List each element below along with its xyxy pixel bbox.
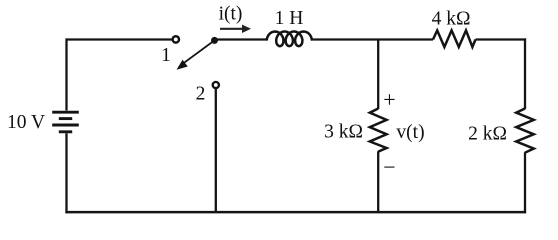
switch blade SW1 [178, 40, 215, 69]
svg-text:4 kΩ: 4 kΩ [432, 9, 471, 30]
switch terminal 1 [173, 36, 179, 42]
svg-text:2: 2 [196, 84, 206, 105]
inductor L1 coil [267, 32, 312, 47]
svg-text:2 kΩ: 2 kΩ [468, 124, 507, 145]
svg-text:10 V: 10 V [7, 112, 45, 133]
current arrow i(t) [220, 25, 251, 33]
battery V1 plate short [59, 117, 72, 120]
svg-text:+: + [383, 87, 395, 112]
battery V1 plate long bottom [52, 124, 79, 127]
resistor R3 2k zigzag [516, 109, 534, 153]
node junction at 3k branch [377, 40, 379, 110]
wire left vertical lower [65, 133, 67, 213]
svg-text:3 kΩ: 3 kΩ [324, 122, 363, 143]
svg-text:1: 1 [161, 45, 171, 66]
switch terminal 2 [213, 82, 219, 88]
wire 4k to top-right corner [476, 38, 527, 40]
switch pivot dot [211, 37, 218, 44]
svg-text:−: − [383, 155, 395, 180]
wire dot to inductor [215, 38, 268, 40]
resistor R1 4k zigzag [433, 30, 476, 47]
battery V1 plate short bottom [59, 130, 72, 133]
wire 2k resistor to bottom-right corner [524, 152, 526, 213]
resistor R2 3k zigzag [370, 109, 387, 152]
wire left vertical upper [65, 38, 67, 110]
wire bottom rail [65, 211, 526, 214]
wire inductor to 4k resistor [311, 38, 433, 40]
svg-text:1 H: 1 H [275, 8, 304, 29]
wire top-left horizontal [67, 38, 173, 40]
battery V1 plate long top [52, 111, 79, 114]
wire 3k resistor to bottom [377, 151, 379, 213]
svg-text:v(t): v(t) [396, 122, 424, 143]
svg-text:i(t): i(t) [219, 4, 243, 25]
wire from terminal 2 down [215, 88, 217, 213]
wire right vertical upper [524, 38, 526, 109]
